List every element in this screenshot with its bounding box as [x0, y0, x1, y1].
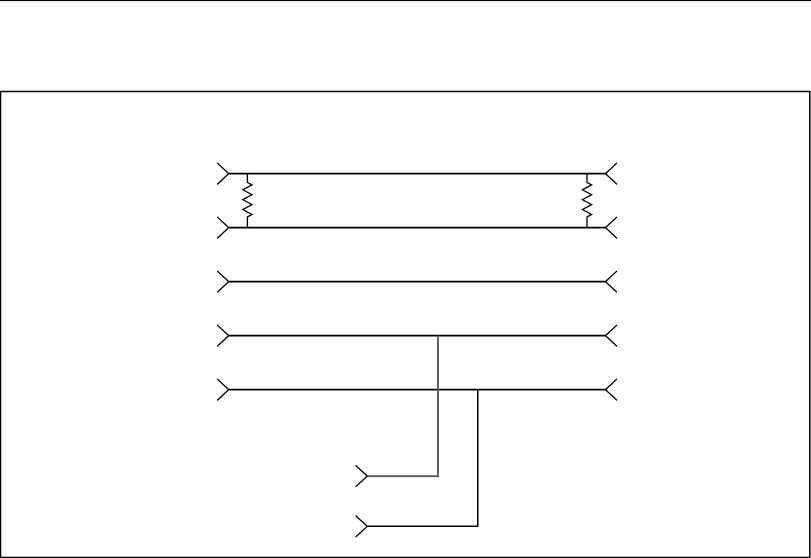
connector P12 (left arrow, stub B)	[356, 516, 368, 537]
resistor R1 (left, between net 1 and net 2)	[243, 174, 252, 228]
connector P2 (left arrow, net 2)	[217, 217, 229, 238]
connector P9 (right arrow, net 4)	[606, 325, 618, 346]
wire net 5	[229, 389, 606, 391]
connector P1 (left arrow, net 1)	[217, 163, 229, 184]
resistor R2 (right, between net 1 and net 2)	[582, 174, 591, 228]
wire tap from net 4 down to stub A	[367, 336, 438, 477]
connector P11 (left arrow, stub A)	[356, 465, 368, 486]
connector P6 (right arrow, net 1)	[606, 163, 618, 184]
connector P8 (right arrow, net 3)	[606, 271, 618, 292]
wire tap from net 5 down to stub B	[367, 390, 477, 527]
wire net 3	[229, 281, 606, 283]
connector P5 (left arrow, net 5)	[217, 379, 229, 400]
wire net 4	[229, 335, 606, 337]
connector P10 (right arrow, net 5)	[606, 379, 618, 400]
connector P3 (left arrow, net 3)	[217, 271, 229, 292]
connector P4 (left arrow, net 4)	[217, 325, 229, 346]
wire net 2	[229, 227, 606, 229]
wire net 1	[229, 173, 606, 175]
connector P7 (right arrow, net 2)	[606, 217, 618, 238]
